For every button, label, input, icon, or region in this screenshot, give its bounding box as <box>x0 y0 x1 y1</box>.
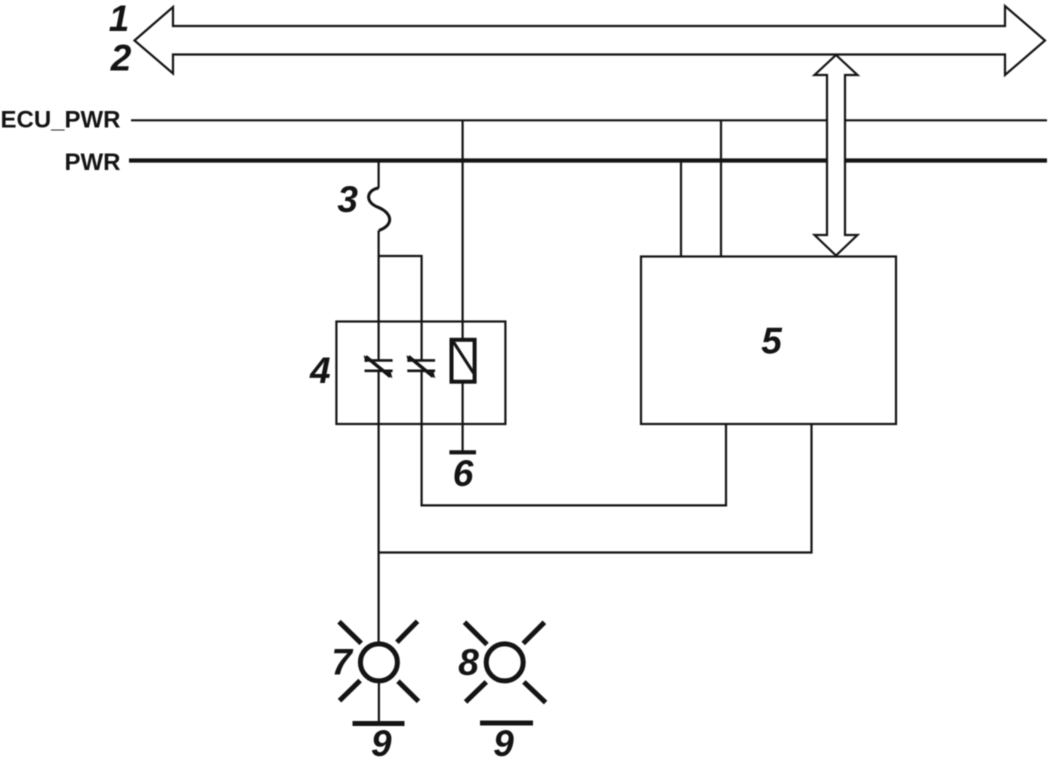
contact switch in box 4 (right) <box>406 355 435 378</box>
svg-text:1: 1 <box>109 0 130 39</box>
relay coil in box 4 <box>452 340 475 382</box>
svg-text:PWR: PWR <box>65 149 121 176</box>
lamp 7 <box>339 621 419 701</box>
svg-text:5: 5 <box>761 321 783 362</box>
svg-text:9: 9 <box>493 723 514 764</box>
wire from box 5 bottom to lamp wire junction <box>379 424 812 553</box>
svg-text:4: 4 <box>309 350 331 391</box>
wire from ECU_PWR down to relay coil <box>462 120 464 339</box>
wire from box 5 bottom to second contact <box>422 424 726 505</box>
wire stub from PWR to box 5 <box>680 161 682 257</box>
contact switch in box 4 (left) <box>364 355 393 378</box>
ground 9 (right) <box>480 721 533 726</box>
wire from breaker 3 down through box 4 to lamp 7 <box>378 230 380 643</box>
lamp 8 <box>465 622 546 702</box>
wire from relay coil to ground 6 <box>462 382 464 452</box>
ECU box 5 <box>641 257 896 425</box>
svg-text:8: 8 <box>458 642 479 683</box>
circuit breaker 3 (wavy element) <box>369 188 390 230</box>
svg-text:ECU_PWR: ECU_PWR <box>0 107 120 134</box>
relay box 4 <box>336 322 505 425</box>
bus arrow 1/2 <box>135 6 1046 75</box>
ground 6 <box>449 450 476 454</box>
wire PWR <box>129 158 1047 162</box>
ground 9 (left) <box>353 721 405 726</box>
vertical bus arrow to unit 5 <box>815 55 858 256</box>
wire stub from ECU_PWR to box 5 <box>720 120 722 256</box>
svg-text:6: 6 <box>453 453 474 494</box>
svg-text:7: 7 <box>331 642 354 683</box>
wire from PWR down to fuse 3 <box>378 161 380 188</box>
wire branch to second contact <box>379 256 422 424</box>
svg-text:3: 3 <box>337 179 358 220</box>
svg-text:9: 9 <box>371 723 392 764</box>
svg-text:2: 2 <box>110 38 132 79</box>
wire lamp 7 to ground 9 <box>378 681 380 726</box>
wire ECU_PWR <box>131 119 1047 121</box>
